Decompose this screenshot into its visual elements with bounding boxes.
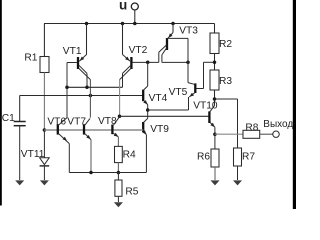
ground below R5: [114, 202, 123, 207]
transistor VT2 (pnp mirrored): [120, 24, 148, 88]
diode VT11: [21, 130, 49, 180]
wire output line y=134.2: [215, 133, 243, 135]
ground below VT11: [40, 180, 49, 185]
node dot VT3 emitter on bus: [171, 22, 175, 26]
node dot u terminal on bus: [133, 22, 137, 26]
svg-text:C1: C1: [2, 113, 15, 124]
node dot VT4 collector: [146, 61, 150, 65]
svg-text:R2: R2: [219, 39, 232, 50]
node dot VT10 emitter / R6 / output: [213, 132, 217, 136]
node dot base line / VT1 collector: [85, 86, 89, 90]
transistor VT10 (npn): [193, 101, 218, 149]
svg-text:R3: R3: [219, 76, 232, 87]
svg-text:VT11: VT11: [21, 149, 45, 160]
transistor VT4 (npn): [143, 62, 167, 118]
svg-text:VT7: VT7: [67, 117, 86, 128]
wire input line y=95.5 (C1 to VT4 base): [20, 95, 144, 97]
svg-text:R8: R8: [245, 123, 258, 134]
node dot VT7 emitter: [89, 171, 93, 175]
wire R1 down to bias rail: [43, 73, 45, 131]
node dot VT3 base / VT5 base: [186, 61, 190, 65]
svg-text:VT9: VT9: [150, 124, 169, 135]
resistor R5: [117, 173, 119, 181]
transistor VT7 (npn): [67, 117, 91, 173]
svg-text:R4: R4: [123, 150, 136, 161]
node dot R2/R3/VT5 collector: [213, 61, 217, 65]
wire VT1 base loop vertical: [66, 63, 68, 118]
wire VT3 collector to VT5/VT3 base node: [162, 61, 188, 63]
svg-text:VT10: VT10: [193, 101, 218, 112]
svg-text:VT4: VT4: [149, 93, 168, 104]
transistor VT3 (pnp mirrored): [159, 24, 198, 63]
left page border bar: [0, 0, 2, 206]
svg-text:R1: R1: [24, 53, 37, 64]
wire VT2 collector vertical: [119, 80, 121, 117]
ground below R7: [233, 180, 242, 185]
resistor R3: [210, 70, 219, 90]
node dot R3/VT10 collector: [213, 97, 217, 101]
power bus wire: [44, 23, 215, 25]
node dot VT2 emitter on bus: [121, 22, 125, 26]
resistor R8 (horizontal): [243, 130, 260, 138]
wire R4 to emitter rail: [117, 163, 119, 173]
svg-text:VT8: VT8: [98, 116, 117, 127]
right page border bar: [293, 0, 296, 209]
svg-text:R5: R5: [125, 186, 138, 197]
node dot R1/VT11/rail: [43, 128, 47, 132]
wire VT2 base line y=62.3: [133, 61, 159, 63]
node dot VT1 collector on input line: [89, 94, 93, 98]
u supply terminal: [119, 0, 138, 24]
wire mirror line y=116.3 (VT2/VT8 collectors to VT10 base): [120, 115, 210, 117]
transistor VT8 (npn): [98, 116, 120, 146]
transistor VT5 (npn mirrored): [169, 62, 215, 110]
transistor VT9 (npn): [142, 118, 169, 172]
resistor R4: [115, 146, 123, 162]
svg-text:VT1: VT1: [63, 46, 82, 57]
resistor R1: [40, 57, 49, 73]
ground below R6: [211, 180, 220, 185]
node dot VT1 emitter on bus: [85, 22, 89, 26]
svg-text:R7: R7: [242, 151, 255, 162]
svg-text:VT5: VT5: [169, 87, 188, 98]
svg-text:VT6: VT6: [47, 117, 66, 128]
svg-text:Выход: Выход: [263, 119, 293, 130]
svg-text:R6: R6: [197, 151, 210, 162]
wire emitters node y=110: [148, 109, 189, 111]
node dot base line left: [65, 86, 69, 90]
node dot R4/R5: [117, 171, 121, 175]
svg-text:VT3: VT3: [179, 25, 198, 36]
wire R3 bottom to R7: [215, 98, 238, 100]
node dot VT2/VT8 collectors to mirror line: [118, 115, 122, 119]
resistor R7: [234, 148, 242, 166]
ground below C1: [15, 180, 24, 185]
capacitor C1: [2, 96, 26, 181]
bias rail y=130 (bases of VT6-VT9): [44, 129, 143, 131]
wire emitter rail y=172.5: [69, 172, 146, 174]
resistor R6: [211, 149, 219, 167]
wire mirror base line y=87: [67, 86, 123, 88]
wire bus to R1: [43, 24, 45, 57]
resistor R2: [214, 24, 216, 34]
node dot VT4/VT5 emitters + VT9 collector: [146, 108, 150, 112]
svg-text:u: u: [119, 0, 127, 12]
transistor VT6 (npn): [47, 117, 69, 173]
wire VT1 collector vertical: [89, 80, 91, 118]
transistor VT1 (pnp): [63, 24, 91, 88]
svg-text:VT2: VT2: [129, 45, 148, 56]
output terminal circle: [273, 131, 279, 137]
